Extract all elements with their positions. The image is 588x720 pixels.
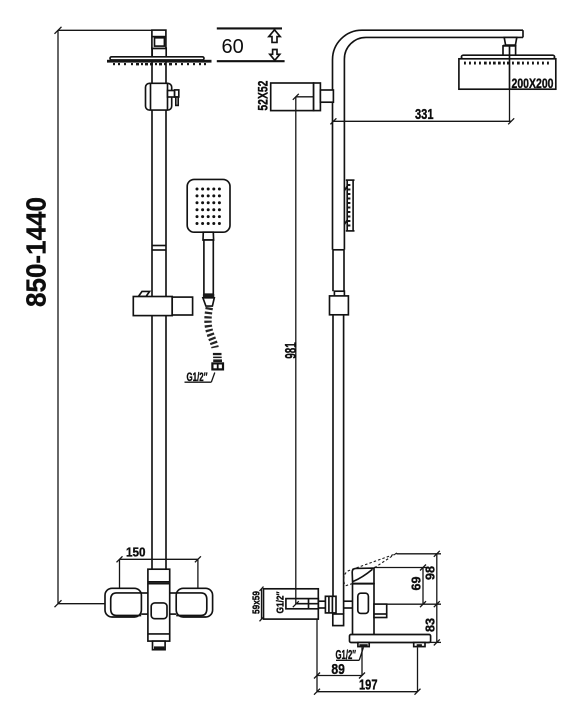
mixer body (front view): [148, 569, 170, 641]
diverter bracket on pole: [146, 83, 179, 110]
spout (side view): [374, 604, 387, 617]
svg-text:200X200: 200X200: [512, 76, 554, 91]
hose end fitting G1/2: [212, 353, 223, 370]
dimension 69: [374, 565, 428, 608]
label G1/2 (base): [336, 647, 364, 662]
dimension 150: [117, 544, 201, 588]
pole joint line: [152, 246, 166, 251]
dimension 331: [330, 89, 514, 124]
head connector fitting (side): [503, 37, 517, 55]
hand shower (side view, edge-on): [344, 180, 354, 231]
left handle (front): [105, 588, 148, 617]
label 52X52: [255, 80, 271, 110]
dimension 197: [314, 648, 421, 695]
svg-text:981: 981: [283, 342, 300, 359]
shower pipe with gooseneck (side view): [333, 30, 524, 250]
pole lower sections (side view): [333, 250, 345, 614]
label 59x59: [251, 587, 264, 622]
holder block (side view): [330, 296, 349, 315]
hand shower spray ticks (side): [348, 184, 351, 227]
svg-text:52X52: 52X52: [255, 80, 271, 110]
base plate (side view): [350, 635, 431, 647]
shower pole (front view): [152, 47, 166, 570]
svg-text:98: 98: [423, 566, 437, 580]
dimension 60: [217, 28, 285, 61]
hand shower holder bracket: [133, 291, 192, 315]
right handle (front): [170, 588, 213, 617]
head nozzle ticks (side): [464, 62, 549, 65]
lever raised position (phantom): [344, 553, 397, 586]
pole top cap: [152, 30, 166, 57]
svg-text:850-1440: 850-1440: [21, 197, 52, 307]
crossbar end (side): [358, 593, 369, 613]
dimension 83: [387, 601, 441, 645]
rain shower head plate (front, edge view): [107, 57, 212, 63]
wall escutcheon (side view): [264, 589, 319, 619]
mixer lever handle (side view): [352, 568, 374, 583]
svg-text:59x59: 59x59: [251, 591, 263, 614]
label G1/2 (hose): [185, 372, 215, 384]
svg-text:197: 197: [359, 677, 378, 694]
label G1/2 (side inlet): [275, 592, 287, 614]
label 200X200: [512, 76, 554, 91]
svg-text:69: 69: [410, 576, 424, 590]
rain shower head (side view) 200X200: [459, 47, 556, 90]
shower hose (coil): [208, 308, 215, 348]
diverter knob (front centre): [151, 603, 167, 619]
dimension 981: [283, 94, 313, 607]
dimension 850-1440: [21, 27, 152, 607]
svg-text:150: 150: [126, 544, 146, 559]
wall bracket (side view, top): [271, 83, 334, 111]
rain head nozzles: [113, 63, 206, 65]
mixer outlet (front): [153, 641, 166, 650]
svg-text:83: 83: [423, 618, 437, 632]
hand shower handle: [203, 232, 214, 306]
dimension 89: [314, 619, 365, 692]
mixer body (side view): [353, 584, 375, 636]
dimension 98: [397, 551, 442, 604]
hand shower nozzle dots: [196, 188, 221, 226]
svg-text:60: 60: [222, 36, 244, 58]
inlet pipe and hex nut (side): [318, 596, 352, 613]
lower hose connector block (side): [333, 614, 344, 626]
hand shower head: [187, 179, 230, 232]
svg-text:G1/2″: G1/2″: [275, 592, 287, 614]
svg-text:331: 331: [415, 106, 434, 123]
svg-text:89: 89: [331, 661, 345, 678]
